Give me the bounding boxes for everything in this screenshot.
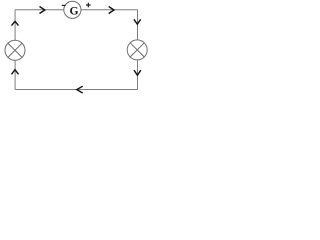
wire left — [14, 10, 16, 90]
current arrow right-lower — [134, 70, 141, 75]
wire top — [15, 9, 137, 11]
lamp L2 — [127, 40, 147, 60]
current arrow right-upper — [134, 19, 141, 24]
wire right — [137, 10, 139, 90]
current arrow bottom — [77, 86, 83, 93]
svg-text:G: G — [69, 5, 78, 18]
wire bottom — [15, 89, 137, 91]
lamp L1 — [5, 40, 25, 60]
minus polarity — [62, 4, 66, 6]
current arrow left-lower — [12, 70, 19, 75]
current arrow top-right — [109, 7, 114, 14]
current arrow top-left — [40, 7, 45, 14]
generator G — [64, 1, 81, 18]
current arrow left-upper — [12, 21, 19, 25]
plus polarity — [86, 3, 91, 8]
